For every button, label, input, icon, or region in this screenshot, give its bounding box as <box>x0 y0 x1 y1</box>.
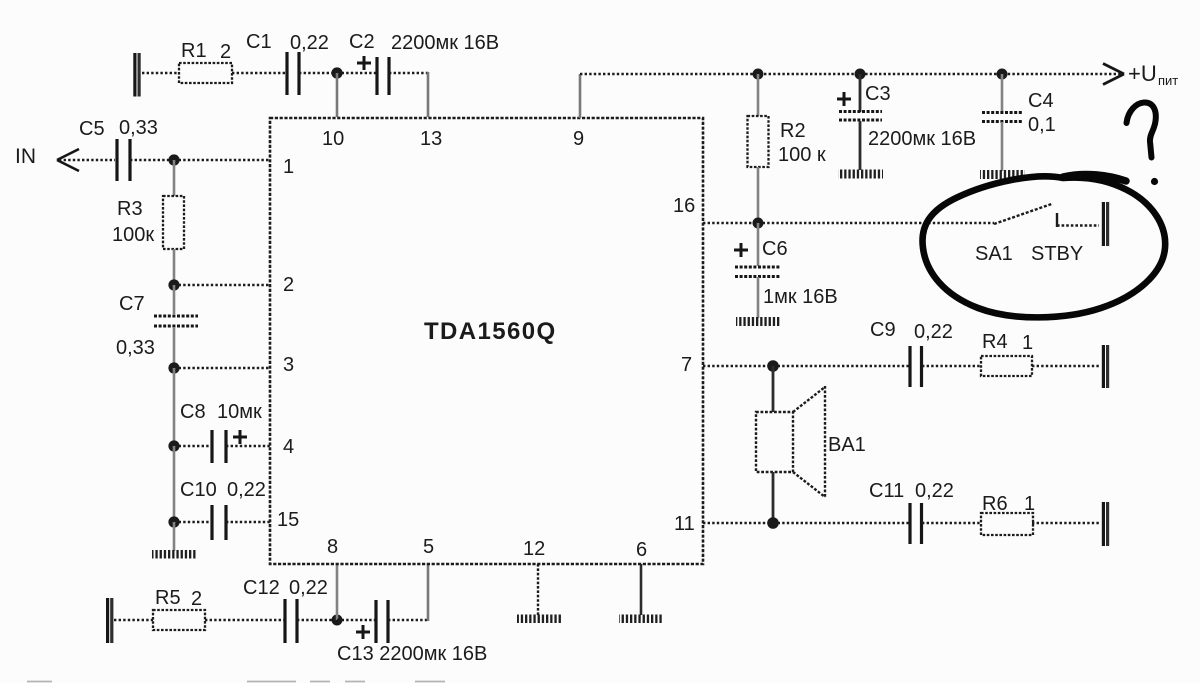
node H (R2 top junction) <box>753 69 764 80</box>
wire R3 to node C <box>173 249 176 285</box>
svg-text:R3: R3 <box>117 198 143 220</box>
svg-text:1: 1 <box>1022 332 1033 354</box>
wire R5 to C12 <box>205 619 284 621</box>
wire C6 to ground <box>757 277 760 318</box>
svg-text:16: 16 <box>673 195 695 217</box>
wire pin12 to ground <box>537 564 539 615</box>
svg-text:C3: C3 <box>865 83 891 105</box>
node C (pin2 junction) <box>168 279 179 290</box>
wire C3 to ground <box>859 121 862 170</box>
wire node A to C2 <box>337 72 376 74</box>
wire R1 to C1 <box>232 72 286 74</box>
wire pin11 to node M <box>703 522 773 524</box>
wire node K to switch SA1 <box>758 222 994 224</box>
wire IN arrow to C5 <box>59 159 115 161</box>
resistor R4 <box>981 356 1032 376</box>
wire C7 to node D <box>173 327 176 368</box>
svg-text:0,22: 0,22 <box>914 321 953 343</box>
svg-text:C1: C1 <box>246 31 272 53</box>
svg-text:IN: IN <box>15 145 36 168</box>
wire R2 to node K <box>757 167 760 223</box>
capacitor C11 <box>910 503 922 544</box>
svg-text:100 к: 100 к <box>778 144 826 166</box>
speaker BA1 <box>756 386 825 498</box>
wire node J to C4 <box>1001 74 1004 112</box>
node G (pin8 junction) <box>332 615 343 626</box>
input arrow head <box>57 149 79 171</box>
svg-text:C8: C8 <box>180 401 206 423</box>
wire pin8 riser <box>336 564 339 620</box>
capacitor C3 polarity plus <box>837 92 851 106</box>
wire ground to R1 <box>142 72 179 74</box>
svg-text:R1: R1 <box>181 40 207 62</box>
ground top-left (vertical bar) <box>135 53 139 97</box>
wire R4 to ground <box>1032 365 1100 367</box>
hand-drawn circle around SA1 <box>922 176 1165 317</box>
svg-text:SA1: SA1 <box>975 243 1013 265</box>
wire node E to node F <box>173 446 176 522</box>
svg-text:пит: пит <box>1158 73 1178 88</box>
capacitor C7 <box>154 316 198 326</box>
wire pin16 to node K <box>703 222 758 224</box>
wire pin7 to node L <box>703 365 773 367</box>
svg-text:0,22: 0,22 <box>289 577 328 599</box>
capacitor C12 <box>285 599 297 643</box>
wire node B to R3 <box>173 160 176 196</box>
node E (C8 junction) <box>168 440 179 451</box>
capacitor C9 <box>910 346 922 387</box>
resistor R3 <box>163 196 184 249</box>
wire C13 to pin5 corner <box>388 564 429 621</box>
wire node M to C11 <box>773 522 909 524</box>
switch SA1 blade <box>994 204 1053 225</box>
resistor R6 <box>981 513 1033 535</box>
svg-text:0,1: 0,1 <box>1028 114 1056 136</box>
wire node G to C13 <box>337 619 375 621</box>
capacitor C13 polarity plus <box>356 625 370 639</box>
wire C1 to node A <box>299 72 337 74</box>
wire node D to pin 3 <box>174 367 270 369</box>
wire C10 to pin 15 <box>226 521 270 523</box>
capacitor C2 polarity plus <box>357 56 371 70</box>
svg-text:8: 8 <box>327 536 338 558</box>
capacitor C3 <box>839 112 882 121</box>
question mark dot <box>1151 178 1158 185</box>
svg-text:C5: C5 <box>79 118 105 140</box>
resistor R2 <box>748 116 769 167</box>
svg-text:1: 1 <box>283 156 294 178</box>
wire node L to speaker <box>772 366 775 412</box>
hand-drawn question mark <box>1127 102 1156 157</box>
resistor R1 <box>179 63 232 83</box>
capacitor C6 polarity plus <box>734 243 748 257</box>
wire supply rail <box>580 73 1122 75</box>
svg-text:3: 3 <box>283 354 294 376</box>
ground pin 6 <box>619 615 663 624</box>
svg-text:2: 2 <box>283 274 294 296</box>
wire node F to C10 <box>174 521 210 523</box>
svg-text:6: 6 <box>636 539 647 561</box>
wire node C to pin 2 <box>174 284 270 286</box>
wire node I to C3 <box>859 74 862 112</box>
svg-text:0,22: 0,22 <box>915 480 954 502</box>
scan residue bottom edge <box>27 681 445 683</box>
wire node H to R2 <box>757 74 760 116</box>
svg-text:2200мк 16В: 2200мк 16В <box>391 32 499 54</box>
capacitor C2 <box>377 57 389 95</box>
svg-text:7: 7 <box>681 354 692 376</box>
switch SA1 fixed contact <box>1057 213 1099 227</box>
wire node F to ground <box>173 522 176 551</box>
wire node E to C8 <box>174 445 210 447</box>
wire C2 to pin13 corner <box>389 72 429 117</box>
ground R6 (vertical bar) <box>1103 502 1107 546</box>
svg-text:C4: C4 <box>1028 90 1054 112</box>
svg-text:BA1: BA1 <box>828 434 866 456</box>
label +Uпит <box>1128 61 1178 88</box>
svg-text:R6: R6 <box>982 493 1008 515</box>
svg-text:C11: C11 <box>869 480 904 502</box>
svg-text:C2: C2 <box>349 31 375 53</box>
capacitor C8 polarity plus <box>233 430 247 444</box>
capacitor C5 <box>117 139 130 181</box>
svg-text:10мк: 10мк <box>217 401 262 423</box>
wire node C to C7 <box>173 285 176 314</box>
svg-text:0,22: 0,22 <box>227 479 266 501</box>
svg-text:TDA1560Q: TDA1560Q <box>424 318 557 345</box>
node J (C4 junction) <box>997 69 1008 80</box>
ground pin 12 <box>517 615 561 624</box>
node I (C3 junction) <box>855 69 866 80</box>
capacitor C13 <box>376 600 388 643</box>
wire node D to node E <box>173 368 176 446</box>
hand-drawn circle overshoot stroke <box>1063 174 1126 181</box>
wire node B to pin 1 <box>174 159 270 161</box>
svg-text:C9: C9 <box>870 319 896 341</box>
wire C4 to ground <box>1001 122 1004 171</box>
node M (pin11/speaker junction) <box>767 517 779 529</box>
wire R6 to ground <box>1032 522 1100 524</box>
wire C11 to R6 <box>922 522 981 524</box>
op-amp IC U1 TDA1560Q body <box>270 118 703 564</box>
capacitor C10 <box>212 505 226 540</box>
wire speaker to node M <box>772 472 775 523</box>
svg-text:2: 2 <box>191 588 202 610</box>
svg-text:STBY: STBY <box>1031 243 1083 265</box>
svg-text:R2: R2 <box>780 120 806 142</box>
svg-text:1мк 16В: 1мк 16В <box>763 286 838 308</box>
svg-text:C10: C10 <box>180 479 217 501</box>
capacitor C1 <box>287 52 299 95</box>
resistor R5 <box>153 610 205 630</box>
svg-text:10: 10 <box>322 128 344 150</box>
svg-text:1: 1 <box>1024 493 1035 515</box>
capacitor C6 <box>735 267 780 277</box>
svg-text:C6: C6 <box>762 238 788 260</box>
node F (C10 junction) <box>168 516 179 527</box>
ground SA1 (vertical bar) <box>1103 202 1107 246</box>
capacitor C4 <box>982 113 1022 122</box>
wire C8 to pin 4 <box>226 445 270 447</box>
wire pin9 riser <box>579 74 582 118</box>
svg-text:0,22: 0,22 <box>290 32 329 54</box>
wire C12 to node G <box>297 619 337 621</box>
svg-text:12: 12 <box>523 538 545 560</box>
wire node L to C9 <box>773 365 909 367</box>
ground below R3 column <box>152 550 196 559</box>
wire C5 to node B <box>130 159 174 161</box>
svg-text:2200мк 16В: 2200мк 16В <box>868 128 976 150</box>
ground C3 <box>838 170 883 179</box>
node K (pin16/R2/C6 junction) <box>753 218 764 229</box>
svg-text:0,33: 0,33 <box>119 117 158 139</box>
svg-text:9: 9 <box>573 128 584 150</box>
svg-text:2: 2 <box>220 41 231 63</box>
svg-text:100к: 100к <box>112 224 154 246</box>
capacitor C8 <box>212 430 226 463</box>
wire pin10 riser <box>336 73 339 117</box>
svg-text:C12: C12 <box>243 577 280 599</box>
wire C9 to R4 <box>922 365 981 367</box>
svg-text:0,33: 0,33 <box>116 337 155 359</box>
svg-text:+U: +U <box>1128 61 1157 86</box>
svg-text:R4: R4 <box>982 331 1008 353</box>
ground C4 <box>980 170 1025 179</box>
svg-text:R5: R5 <box>155 587 181 609</box>
wire ground to R5 <box>114 619 153 621</box>
node D (pin3 junction) <box>168 362 179 373</box>
wire pin6 to ground <box>640 564 643 615</box>
svg-text:5: 5 <box>423 536 434 558</box>
svg-text:C13 2200мк 16В: C13 2200мк 16В <box>337 643 487 665</box>
ground R4 (vertical bar) <box>1103 345 1107 388</box>
arrow +U head <box>1103 64 1124 85</box>
svg-text:4: 4 <box>283 436 294 458</box>
ground bottom-left (vertical bar) <box>108 598 112 643</box>
node A (C1/C2/pin10 junction) <box>331 67 342 78</box>
wire node K to C6 <box>757 223 760 266</box>
node L (pin7/speaker junction) <box>767 360 779 372</box>
svg-text:11: 11 <box>674 513 695 535</box>
svg-text:13: 13 <box>420 128 442 150</box>
svg-text:15: 15 <box>277 509 299 531</box>
ground C6 <box>736 317 781 326</box>
svg-text:C7: C7 <box>119 293 145 315</box>
node B (input/R3 junction) <box>168 154 179 165</box>
